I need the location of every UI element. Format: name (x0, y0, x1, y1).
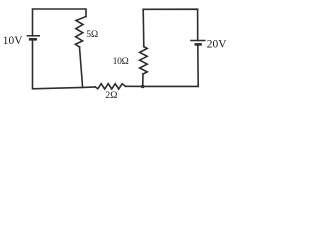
svg-text:20V: 20V (207, 38, 227, 50)
svg-text:10V: 10V (3, 35, 23, 47)
svg-text:2Ω: 2Ω (105, 90, 117, 101)
svg-text:5Ω: 5Ω (86, 29, 98, 40)
svg-text:10Ω: 10Ω (113, 56, 129, 67)
